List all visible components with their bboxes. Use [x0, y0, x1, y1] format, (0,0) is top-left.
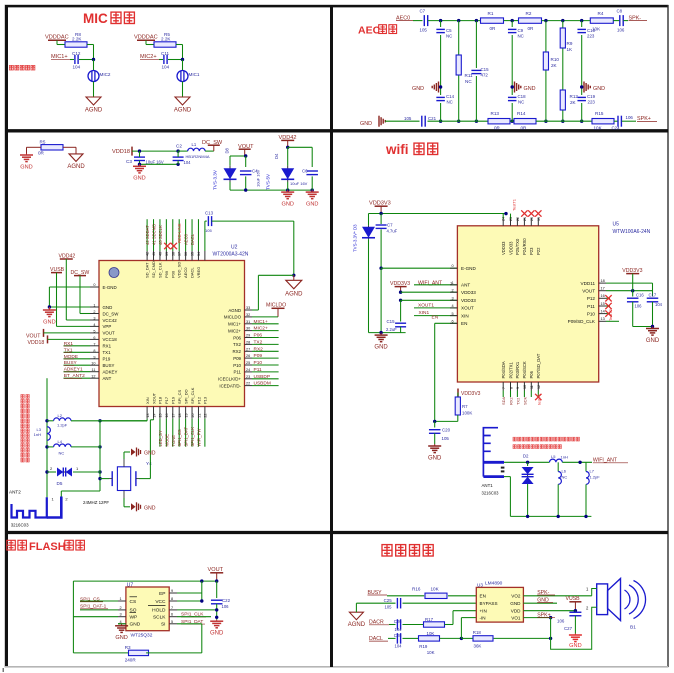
- IC U2 WT2000A3-42N: [99, 261, 245, 407]
- wire to +IN: [445, 624, 454, 626]
- capacitor C13 105: [205, 220, 207, 222]
- svg-text:GND: GND: [524, 86, 536, 92]
- U5 right pin stubs: [599, 282, 606, 284]
- svg-text:GND: GND: [428, 455, 442, 461]
- svg-text:105: 105: [442, 436, 450, 441]
- svg-text:VDD_SD: VDD_SD: [177, 262, 182, 278]
- wire bottom: [73, 652, 130, 654]
- node BUSY: [64, 364, 91, 366]
- svg-text:36: 36: [184, 252, 188, 256]
- svg-text:ANT1: ANT1: [482, 483, 494, 488]
- svg-text:18: 18: [601, 279, 605, 283]
- svg-text:VDD3V3: VDD3V3: [461, 391, 481, 397]
- svg-text:DC_SW: DC_SW: [103, 311, 120, 316]
- svg-text:12: 12: [537, 385, 541, 389]
- svg-text:42: 42: [146, 252, 150, 256]
- svg-text:EN: EN: [480, 594, 486, 599]
- junction: [379, 267, 382, 270]
- U2 pin 2 stub: [90, 313, 99, 315]
- ground GND: [652, 327, 654, 329]
- svg-text:13: 13: [146, 414, 150, 418]
- svg-text:9: 9: [516, 387, 520, 389]
- wire VDD42 to pin3: [65, 259, 67, 320]
- svg-text:39: 39: [165, 252, 169, 256]
- svg-text:XOUT: XOUT: [461, 306, 474, 311]
- svg-text:C24: C24: [612, 126, 621, 131]
- U2 pin 31 stub: [245, 323, 253, 325]
- svg-text:USBDP: USBDP: [254, 374, 271, 380]
- no-connect X marks: [164, 243, 170, 249]
- U2 pin 1 stub: [90, 306, 99, 308]
- svg-text:L1: L1: [192, 142, 197, 147]
- svg-text:10uF 16V: 10uF 16V: [146, 160, 164, 165]
- resistor R3 240R: [129, 650, 149, 655]
- wire column B: [458, 21, 460, 55]
- svg-text:R12: R12: [570, 94, 579, 99]
- U2 pin 25 stub: [245, 364, 253, 366]
- svg-text:0R: 0R: [490, 26, 497, 31]
- junction: [574, 609, 577, 612]
- svg-text:15: 15: [601, 302, 605, 306]
- svg-text:U5: U5: [613, 222, 620, 228]
- diode D5 TVS: [47, 471, 56, 473]
- wire: [288, 146, 313, 148]
- capacitor C20 105: [434, 421, 436, 427]
- svg-text:USBDM: USBDM: [254, 381, 271, 387]
- svg-text:10K: 10K: [594, 126, 603, 131]
- resistor R19 10K: [419, 636, 440, 641]
- U2 pin 12 stub: [90, 377, 99, 379]
- wire: [176, 44, 183, 46]
- junction: [580, 19, 583, 22]
- U2 pin 28 stub: [245, 343, 253, 345]
- svg-text:2K: 2K: [551, 63, 558, 68]
- svg-text:C7: C7: [420, 9, 426, 14]
- svg-text:C18: C18: [518, 94, 527, 99]
- wire: [93, 82, 95, 98]
- svg-text:GND: GND: [510, 601, 521, 606]
- wire: [87, 44, 94, 46]
- svg-text:MIC: MIC: [83, 11, 108, 26]
- svg-text:VDD33: VDD33: [461, 290, 476, 295]
- svg-text:P17: P17: [164, 396, 169, 404]
- svg-text:0R: 0R: [521, 126, 528, 131]
- svg-text:Y4: Y4: [146, 461, 152, 466]
- capacitor C6 10uF 16V: [306, 170, 318, 172]
- U2 pin 26 stub: [245, 357, 253, 359]
- title waizhi FLASH dianlu: [7, 540, 16, 550]
- U5 left pin stubs: [450, 267, 457, 269]
- svg-text:104: 104: [184, 160, 192, 165]
- svg-text:P06: P06: [529, 370, 534, 378]
- svg-text:R3: R3: [125, 645, 131, 650]
- svg-text:105: 105: [420, 28, 428, 33]
- svg-text:ICECLK/D+: ICECLK/D+: [218, 377, 241, 382]
- wire bottom rail: [385, 120, 420, 122]
- svg-text:24: 24: [502, 217, 506, 221]
- junction: [433, 420, 436, 423]
- svg-text:5: 5: [171, 620, 173, 624]
- node RX1: [64, 345, 91, 347]
- svg-text:R14: R14: [517, 111, 526, 116]
- svg-text:SD_CLK: SD_CLK: [157, 262, 162, 278]
- svg-text:U2: U2: [231, 245, 238, 251]
- svg-text:VPP: VPP: [103, 324, 112, 329]
- svg-text:P09/SD_CLK: P09/SD_CLK: [568, 319, 596, 324]
- svg-text:ICEDAT/D-: ICEDAT/D-: [219, 383, 241, 388]
- wire ground rail: [369, 332, 406, 334]
- U2 pin 4 stub: [90, 325, 99, 327]
- U2 pin 24 stub: [245, 371, 253, 373]
- svg-text:AGND: AGND: [174, 108, 192, 114]
- svg-text:C17: C17: [649, 293, 657, 298]
- capacitor C26 104: [389, 624, 396, 626]
- svg-text:2K: 2K: [570, 100, 577, 105]
- svg-text:B1: B1: [630, 625, 636, 631]
- U5 bottom pin stubs: [502, 382, 504, 391]
- svg-text:AEC: AEC: [358, 25, 381, 37]
- ground GND: [380, 333, 382, 336]
- svg-text:22: 22: [204, 414, 208, 418]
- svg-text:10uF 16V: 10uF 16V: [256, 169, 261, 187]
- wire VUSB to pin4: [56, 273, 58, 327]
- ground GND: [216, 620, 218, 622]
- svg-text:P18: P18: [158, 396, 163, 404]
- svg-text:VCC18: VCC18: [103, 337, 118, 342]
- junction: [561, 19, 564, 22]
- svg-text:NC: NC: [59, 451, 65, 456]
- svg-text:TX1: TX1: [103, 350, 112, 355]
- svg-text:GND: GND: [115, 635, 127, 641]
- wire left rail: [72, 581, 74, 653]
- wire: [536, 120, 592, 122]
- svg-text:D4: D4: [274, 153, 279, 159]
- svg-text:105: 105: [404, 116, 412, 121]
- svg-text:HB1R2NM4A: HB1R2NM4A: [186, 154, 210, 159]
- svg-text:18: 18: [178, 414, 182, 418]
- svg-text:TX2: TX2: [254, 339, 263, 345]
- resistor R17 10K: [424, 622, 445, 627]
- svg-text:1: 1: [120, 597, 122, 601]
- svg-text:L2: L2: [58, 413, 63, 418]
- inductor L6 NC: [557, 462, 559, 471]
- wire bottom rail: [504, 476, 510, 478]
- capacitor C24 106: [614, 120, 618, 122]
- capacitor C3 10uF 16V: [134, 156, 145, 158]
- svg-text:L6: L6: [562, 469, 567, 474]
- svg-text:NC: NC: [447, 100, 453, 105]
- U2 pin 23 stub: [245, 378, 253, 380]
- svg-text:R17: R17: [425, 617, 434, 622]
- svg-text:1K: 1K: [567, 47, 574, 52]
- resistor R5 2.2K: [146, 44, 154, 46]
- wire speaker pin1: [592, 589, 597, 596]
- U2 top pin stubs: [146, 219, 148, 251]
- svg-text:R15: R15: [595, 111, 604, 116]
- svg-text:AEC0: AEC0: [183, 267, 188, 278]
- svg-text:P11: P11: [587, 304, 595, 309]
- svg-text:wifi: wifi: [385, 142, 409, 157]
- svg-text:WT25Q32: WT25Q32: [131, 633, 153, 639]
- svg-text:GND: GND: [130, 622, 141, 628]
- svg-text:ADKEY: ADKEY: [103, 370, 118, 375]
- resistor R7 100K: [457, 393, 459, 397]
- resistor R2 0R: [519, 18, 542, 23]
- svg-text:C5: C5: [446, 28, 452, 33]
- svg-text:38: 38: [171, 252, 175, 256]
- svg-text:AGND: AGND: [228, 308, 241, 313]
- svg-text:R9: R9: [567, 41, 573, 46]
- svg-text:AGND: AGND: [348, 622, 366, 628]
- svg-text:3216C03: 3216C03: [11, 523, 29, 528]
- svg-text:MIC1: MIC1: [189, 72, 200, 77]
- wire DC_SW to pin2: [79, 276, 81, 314]
- svg-text:C8: C8: [617, 9, 623, 14]
- U2 pin 30 stub: [245, 330, 253, 332]
- svg-text:10: 10: [523, 385, 527, 389]
- svg-text:L7: L7: [590, 469, 595, 474]
- svg-text:106: 106: [626, 115, 634, 120]
- svg-text:P10: P10: [254, 360, 263, 366]
- wire SI riser: [201, 624, 203, 653]
- svg-text:C25: C25: [384, 598, 393, 603]
- capacitor C27 106: [574, 610, 576, 613]
- svg-text:14: 14: [152, 414, 156, 418]
- svg-text:2.2K: 2.2K: [72, 37, 82, 42]
- svg-text:P24/RX0: P24/RX0: [522, 238, 527, 255]
- svg-text:2.2K: 2.2K: [161, 37, 171, 42]
- resistor R8 2.2K: [57, 44, 65, 46]
- svg-text:VCC: VCC: [155, 599, 166, 605]
- junction: [544, 19, 547, 22]
- svg-text:-IN: -IN: [480, 615, 486, 620]
- svg-text:C21: C21: [428, 116, 437, 121]
- svg-text:R19: R19: [419, 644, 428, 649]
- svg-text:P06: P06: [233, 335, 241, 340]
- junction: [460, 637, 463, 640]
- svg-text:ANT2: ANT2: [9, 490, 21, 495]
- svg-text:31: 31: [246, 320, 250, 324]
- wire column A: [440, 21, 442, 27]
- capacitor C4 10uF 16V: [245, 156, 247, 167]
- svg-text:1nH: 1nH: [561, 455, 568, 460]
- svg-text:P25/TX0: P25/TX0: [515, 238, 520, 255]
- wire VDD33 pins: [401, 291, 458, 293]
- svg-text:P19: P19: [103, 357, 111, 362]
- wire speaker pin2: [551, 607, 597, 649]
- svg-text:8: 8: [509, 387, 513, 389]
- svg-text:13: 13: [601, 317, 605, 321]
- svg-text:AGND: AGND: [285, 291, 303, 297]
- svg-text:7: 7: [171, 606, 173, 610]
- svg-text:3: 3: [120, 613, 122, 617]
- speaker B1: [597, 584, 608, 615]
- svg-text:41 SDCMD: 41 SDCMD: [152, 224, 157, 245]
- svg-text:C2: C2: [176, 144, 182, 149]
- svg-text:C16: C16: [636, 293, 644, 298]
- svg-text:P04/SDA: P04/SDA: [501, 361, 506, 378]
- svg-text:C28: C28: [394, 633, 402, 638]
- svg-text:C11: C11: [161, 51, 170, 56]
- svg-text:C15: C15: [481, 67, 490, 72]
- wire EP/VCC riser: [201, 581, 203, 601]
- svg-text:16: 16: [601, 294, 605, 298]
- svg-text:472: 472: [481, 73, 489, 78]
- svg-text:C20: C20: [442, 428, 451, 433]
- capacitor C18 NC: [508, 96, 517, 98]
- svg-text:2: 2: [120, 606, 122, 610]
- svg-text:MIC2+: MIC2+: [228, 328, 241, 333]
- ground GND: [287, 190, 289, 192]
- U5 top pin stubs: [502, 214, 504, 219]
- svg-text:34: 34: [197, 252, 201, 256]
- wire column E: [545, 21, 547, 52]
- ground GND: [311, 190, 313, 192]
- capacitor C12 104: [70, 59, 74, 61]
- capacitor C9 NC: [508, 28, 517, 30]
- svg-text:GND: GND: [569, 643, 581, 649]
- svg-text:23: 23: [246, 375, 250, 379]
- svg-text:23: 23: [509, 217, 513, 221]
- capacitor C21 105: [421, 116, 423, 127]
- svg-text:WP: WP: [130, 615, 138, 621]
- svg-text:NC: NC: [562, 475, 568, 480]
- svg-text:SPI1_DAT: SPI1_DAT: [184, 427, 189, 447]
- svg-text:22: 22: [246, 382, 250, 386]
- svg-text:TestT2: TestT2: [608, 308, 613, 321]
- capacitor C19 223: [577, 96, 586, 98]
- svg-text:GND: GND: [360, 121, 372, 127]
- svg-text:SPI_DO: SPI_DO: [183, 389, 188, 404]
- wire VCC: [177, 600, 202, 602]
- svg-text:XIN1: XIN1: [419, 310, 430, 316]
- svg-text:EN: EN: [461, 321, 467, 326]
- svg-text:40 SDCLK: 40 SDCLK: [158, 225, 163, 245]
- inductor L1 HB1R2/NM4A: [178, 150, 188, 152]
- svg-text:P99: P99: [164, 270, 169, 278]
- svg-text:17: 17: [172, 414, 176, 418]
- capacitor C11 104: [159, 59, 163, 61]
- svg-text:GND: GND: [133, 176, 145, 182]
- svg-text:R10: R10: [551, 57, 560, 62]
- svg-text:37: 37: [178, 252, 182, 256]
- ground AGND: [175, 97, 190, 105]
- svg-text:GND: GND: [20, 164, 32, 170]
- svg-text:10K: 10K: [427, 650, 435, 655]
- svg-text:1nH: 1nH: [34, 432, 41, 437]
- ground AGND: [86, 97, 101, 105]
- svg-text:WIFI_ANT: WIFI_ANT: [418, 281, 443, 287]
- U2 bottom pin stubs: [146, 407, 148, 419]
- wire column D: [511, 21, 513, 27]
- svg-text:TVS-5V: TVS-5V: [266, 173, 271, 190]
- inductor L2 1.2pF: [47, 420, 54, 422]
- capacitor C2 104: [173, 156, 184, 158]
- svg-text:P13: P13: [203, 396, 208, 404]
- svg-text:WTW100A6-24N: WTW100A6-24N: [613, 229, 651, 235]
- note (red): [513, 437, 516, 441]
- U3 right wires: [523, 595, 591, 597]
- svg-text:CS: CS: [130, 599, 137, 605]
- wire crystal left: [100, 478, 109, 480]
- node BT_ANT2: [64, 377, 91, 379]
- svg-text:C27: C27: [564, 626, 573, 631]
- svg-text:SDA: SDA: [501, 396, 506, 405]
- svg-text:C3: C3: [126, 159, 132, 164]
- svg-text:VDD18: VDD18: [112, 149, 130, 155]
- resistor R10 2K: [543, 52, 548, 70]
- svg-text:E-GND: E-GND: [461, 266, 476, 271]
- resistor R1 0R: [481, 18, 504, 23]
- svg-text:P09: P09: [254, 353, 263, 359]
- svg-text:24MHZ 12PF: 24MHZ 12PF: [83, 500, 109, 505]
- svg-text:R5: R5: [40, 140, 46, 145]
- inductor L5 1nH: [550, 459, 563, 462]
- svg-text:NC: NC: [518, 34, 524, 39]
- svg-text:11: 11: [530, 385, 534, 389]
- svg-text:10uF 16V: 10uF 16V: [290, 181, 308, 186]
- svg-text:42 SDDAT: 42 SDDAT: [145, 225, 150, 245]
- svg-text:EN: EN: [432, 314, 439, 320]
- inductor L7 1.2pF: [585, 462, 587, 471]
- wire: [613, 20, 619, 22]
- svg-text:19: 19: [184, 414, 188, 418]
- svg-text:4.7uF: 4.7uF: [387, 229, 398, 234]
- svg-text:7: 7: [502, 387, 506, 389]
- svg-text:AGND: AGND: [85, 108, 103, 114]
- svg-text:P23: P23: [529, 247, 534, 255]
- svg-text:C26: C26: [394, 619, 402, 624]
- node SPK+: [622, 120, 636, 122]
- title gongfang dianlu: [382, 545, 392, 556]
- svg-text:LM4890: LM4890: [485, 581, 503, 587]
- svg-text:106: 106: [222, 604, 230, 609]
- svg-text:17: 17: [601, 287, 605, 291]
- svg-text:P09: P09: [233, 356, 241, 361]
- svg-text:R2: R2: [526, 11, 532, 16]
- svg-text:P03/RX1: P03/RX1: [515, 361, 520, 378]
- svg-text:GND: GND: [646, 338, 660, 344]
- svg-text:14: 14: [601, 309, 605, 313]
- wire crystal case top: [123, 459, 125, 467]
- capacitor C10 223: [577, 28, 586, 30]
- svg-text:21: 21: [523, 217, 527, 221]
- U2 bottom pin wires: [159, 419, 161, 447]
- svg-text:MIC1+: MIC1+: [228, 322, 241, 327]
- node SPK-: [624, 20, 629, 22]
- svg-text:SPI_CS: SPI_CS: [177, 389, 182, 404]
- no-connect X mark: [535, 394, 541, 400]
- svg-text:XIN: XIN: [145, 397, 150, 404]
- svg-text:VOUT: VOUT: [582, 289, 595, 294]
- svg-text:P19: P19: [171, 396, 176, 404]
- wire: [99, 421, 101, 491]
- svg-text:P12: P12: [196, 396, 201, 404]
- wire E-GND: [49, 286, 90, 288]
- svg-text:WIFI_PW: WIFI_PW: [196, 429, 201, 447]
- svg-text:C19: C19: [587, 94, 596, 99]
- capacitor C22 106: [216, 581, 218, 598]
- svg-text:223: 223: [587, 34, 595, 39]
- svg-text:VDD33: VDD33: [508, 241, 513, 255]
- svg-text:SPI1_CS: SPI1_CS: [177, 429, 182, 446]
- svg-text:VDD33: VDD33: [501, 241, 506, 255]
- capacitor C7 4.7uF: [380, 214, 382, 225]
- svg-text:SCK: SCK: [522, 396, 527, 405]
- svg-text:P04/SCK: P04/SCK: [522, 361, 527, 378]
- capacitor C5 NC: [436, 28, 445, 30]
- svg-text:104: 104: [162, 65, 170, 70]
